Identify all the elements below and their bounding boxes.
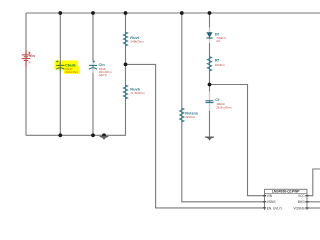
pin VOSNS <box>305 207 308 209</box>
voltage source Vin <box>22 50 36 66</box>
wire diode/filter branch <box>209 13 211 137</box>
svg-text:BHG: BHG <box>298 200 305 204</box>
capacitor Cf <box>206 92 232 112</box>
ground at Cf <box>205 137 214 141</box>
pin VSNS <box>263 201 266 203</box>
capacitor Cbulk (highlighted) <box>56 60 78 74</box>
op-amp U1 controller LM34936-Q1PWP <box>263 189 309 213</box>
wire EN_UVLO from divider tap <box>126 64 265 208</box>
wire top input bus <box>26 12 320 14</box>
svg-text:71.5kOhm: 71.5kOhm <box>130 91 145 95</box>
node junction top bus at Cbulk <box>58 11 62 15</box>
svg-text:VIN: VIN <box>267 194 273 198</box>
svg-text:(2µH): (2µH) <box>99 73 107 77</box>
diode Df <box>206 28 227 44</box>
wire Cbulk branch <box>59 13 61 135</box>
node junction top bus at Rvisns <box>180 11 184 15</box>
node junction top bus at Cin <box>91 11 95 15</box>
svg-text:VCC: VCC <box>298 194 305 198</box>
wire Rvisns branch to VSNS pin <box>182 13 265 202</box>
pin BHG <box>305 201 308 203</box>
svg-text:LM34936-Q1PWP: LM34936-Q1PWP <box>272 190 300 194</box>
wire bottom ground bus <box>26 134 126 136</box>
pin VIN <box>263 195 266 197</box>
node junction filter output <box>208 83 212 87</box>
svg-text:EN_UVLO: EN_UVLO <box>267 206 282 210</box>
resistor Rf <box>207 57 225 72</box>
svg-text:10Ohm: 10Ohm <box>215 63 226 67</box>
svg-text:VOSNS: VOSNS <box>294 206 305 210</box>
wire Ruvt/Ruvb branch <box>125 13 127 135</box>
resistor Ruvb <box>123 85 145 99</box>
wire Cin branch <box>92 13 94 135</box>
capacitor Cin <box>89 60 112 77</box>
wire VCC pin exit <box>307 169 320 196</box>
resistor Ruvt <box>123 32 144 46</box>
node junction top bus at Ruvt <box>124 11 128 15</box>
wire VOSNS pin exit <box>307 207 320 209</box>
node junction bottom bus at ground <box>102 133 106 137</box>
svg-text:26.8mOhm: 26.8mOhm <box>216 105 232 109</box>
node junction divider tap <box>124 63 128 67</box>
pin EN_UVLO <box>263 207 266 209</box>
svg-text:20mOhm: 20mOhm <box>65 70 78 74</box>
resistor Rvisns <box>180 108 198 122</box>
node junction bottom bus at Cbulk <box>58 133 62 137</box>
svg-text:Vin: Vin <box>29 53 36 58</box>
wire left branch Vin <box>25 13 27 135</box>
svg-text:2kOhm: 2kOhm <box>185 115 195 119</box>
node junction top bus at diode branch <box>208 11 212 15</box>
node junction bottom bus at Cin <box>91 133 95 137</box>
ground at bottom bus <box>99 136 108 140</box>
svg-text:249kOhm: 249kOhm <box>130 39 144 43</box>
svg-text:VSNS: VSNS <box>267 200 276 204</box>
wire BHG pin exit <box>307 201 320 203</box>
wire filter node to VIN pin <box>210 85 265 196</box>
pin VCC <box>305 195 308 197</box>
highlight on capacitor Cbulk <box>55 60 80 73</box>
